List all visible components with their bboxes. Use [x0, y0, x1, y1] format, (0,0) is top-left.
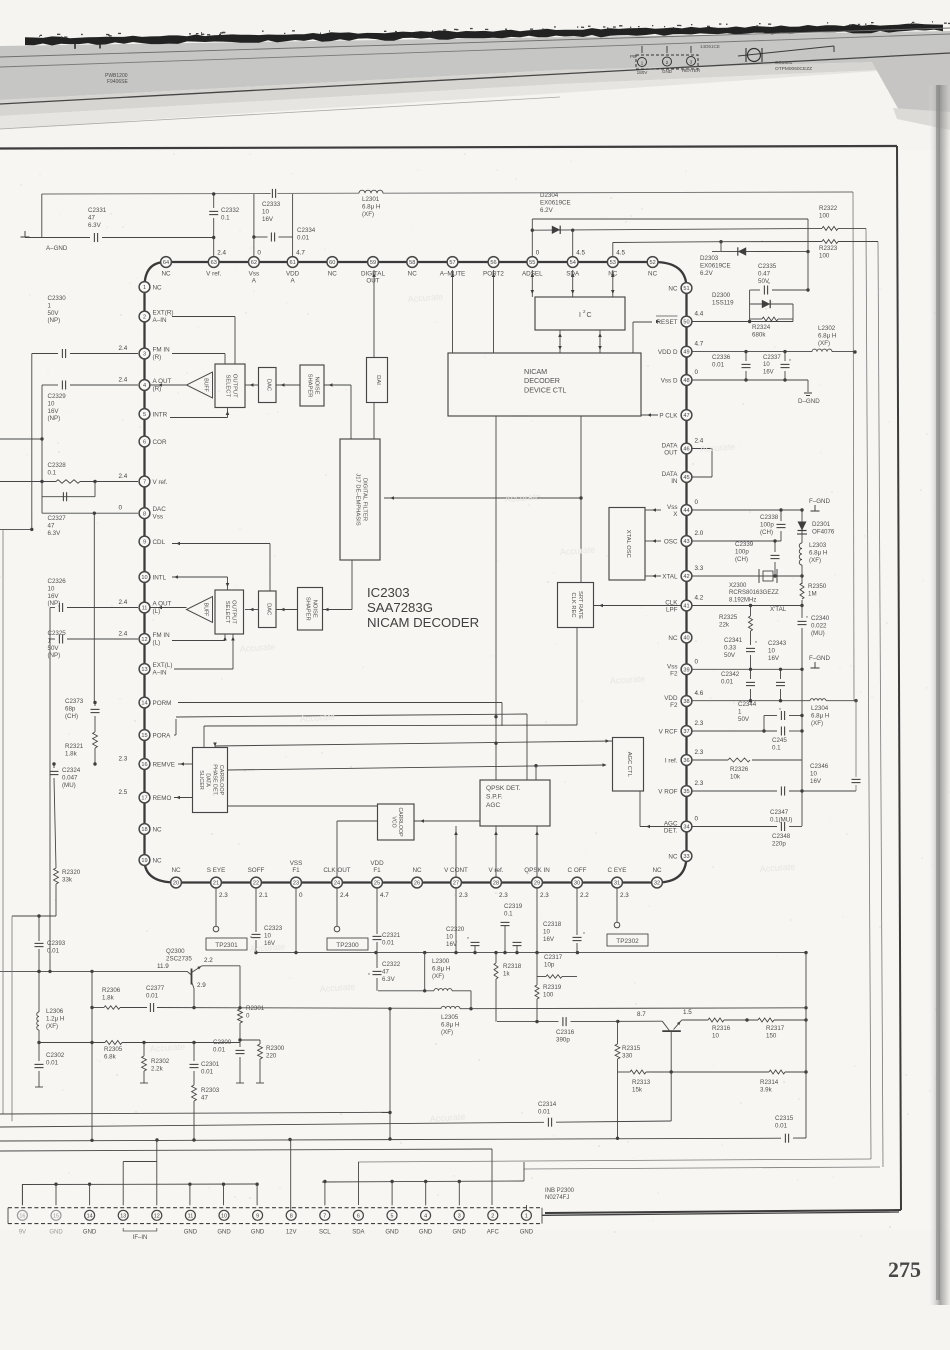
svg-text:3: 3 — [458, 1213, 461, 1219]
svg-text:C2347: C2347 — [770, 809, 789, 816]
svg-text:NC: NC — [668, 853, 678, 860]
svg-text:0.1: 0.1 — [504, 910, 513, 917]
svg-text:33k: 33k — [62, 876, 73, 883]
svg-text:*: * — [755, 641, 757, 647]
svg-text:RCRS80163GEZZ: RCRS80163GEZZ — [729, 590, 779, 596]
svg-text:SAA7283G: SAA7283G — [367, 600, 433, 615]
svg-text:C2317: C2317 — [544, 954, 563, 961]
svg-text:0: 0 — [299, 892, 303, 899]
svg-text:2.2k: 2.2k — [151, 1065, 164, 1072]
svg-text:11: 11 — [142, 606, 148, 612]
svg-text:3.3: 3.3 — [695, 565, 704, 572]
svg-text:180V: 180V — [637, 70, 649, 75]
svg-text:NC: NC — [153, 826, 163, 833]
svg-text:R2322: R2322 — [819, 205, 838, 212]
svg-text:R2301: R2301 — [246, 1005, 265, 1012]
svg-text:DET.: DET. — [664, 828, 678, 835]
svg-text:C2323: C2323 — [264, 925, 283, 932]
svg-text:(R): (R) — [153, 354, 162, 361]
svg-text:C2335: C2335 — [758, 263, 777, 270]
svg-text:C2326: C2326 — [48, 578, 67, 585]
svg-text:OUT: OUT — [664, 450, 677, 457]
svg-text:6.8k: 6.8k — [104, 1053, 117, 1060]
svg-text:8.192MHz: 8.192MHz — [729, 597, 756, 603]
svg-text:P CLK: P CLK — [659, 412, 678, 419]
svg-text:0: 0 — [695, 816, 699, 823]
svg-text:220: 220 — [266, 1052, 277, 1059]
svg-text:100p: 100p — [760, 521, 774, 528]
svg-text:4.7: 4.7 — [695, 341, 704, 348]
svg-text:16: 16 — [19, 1213, 25, 1219]
svg-text:44: 44 — [683, 508, 689, 514]
svg-text:43: 43 — [683, 539, 689, 545]
svg-text:0.33: 0.33 — [724, 644, 737, 651]
svg-text:SCL: SCL — [319, 1230, 331, 1236]
svg-text:64: 64 — [163, 260, 169, 266]
svg-text:10k: 10k — [730, 773, 741, 780]
svg-text:1: 1 — [143, 285, 146, 291]
svg-text:DEVICE CTL: DEVICE CTL — [524, 385, 566, 394]
svg-text:NICAM DECODER: NICAM DECODER — [367, 615, 479, 630]
svg-text:1.5: 1.5 — [683, 1009, 692, 1016]
svg-text:6.8μ H: 6.8μ H — [811, 712, 829, 719]
svg-text:OUT: OUT — [366, 278, 379, 285]
svg-text:2.3: 2.3 — [499, 892, 508, 899]
svg-text:(CH): (CH) — [760, 529, 773, 536]
svg-text:C2325: C2325 — [48, 630, 67, 637]
svg-text:(NP): (NP) — [48, 600, 61, 607]
svg-text:D2303: D2303 — [700, 255, 719, 262]
svg-text:F2: F2 — [670, 702, 678, 709]
svg-text:A–IN: A–IN — [153, 317, 167, 324]
svg-text:INTL: INTL — [153, 574, 167, 581]
svg-text:4.5: 4.5 — [616, 250, 625, 257]
svg-text:41: 41 — [683, 604, 689, 610]
svg-text:R2315: R2315 — [622, 1045, 641, 1052]
svg-text:50V: 50V — [724, 652, 736, 659]
svg-text:6.2V: 6.2V — [700, 270, 714, 277]
svg-text:0: 0 — [257, 250, 261, 257]
svg-text:47: 47 — [683, 413, 689, 419]
svg-text:6: 6 — [357, 1213, 360, 1219]
svg-text:FM IN: FM IN — [153, 347, 171, 354]
svg-text:XTAL: XTAL — [662, 573, 678, 580]
svg-text:*: * — [250, 936, 252, 942]
svg-text:R2350: R2350 — [808, 583, 827, 590]
svg-text:FM IN: FM IN — [153, 632, 171, 639]
svg-text:DIGITAL: DIGITAL — [361, 271, 386, 278]
svg-text:GND: GND — [662, 69, 673, 74]
svg-text:Vss: Vss — [667, 504, 678, 511]
svg-text:16V: 16V — [810, 778, 822, 785]
svg-text:2: 2 — [491, 1213, 494, 1219]
svg-text:15: 15 — [53, 1213, 59, 1219]
svg-text:R2313: R2313 — [632, 1079, 651, 1086]
svg-text:18: 18 — [141, 827, 147, 833]
svg-text:R2319: R2319 — [543, 984, 562, 991]
svg-text:OSC: OSC — [664, 538, 678, 545]
svg-text:2.3: 2.3 — [119, 756, 128, 763]
svg-text:GND: GND — [217, 1230, 231, 1236]
svg-text:QPSK DET.: QPSK DET. — [486, 785, 521, 792]
svg-text:C2315: C2315 — [775, 1115, 794, 1122]
svg-text:R2314: R2314 — [760, 1079, 779, 1086]
svg-text:REMO: REMO — [153, 795, 172, 802]
svg-text:A–IN: A–IN — [153, 669, 167, 676]
svg-text:2.4: 2.4 — [119, 377, 128, 384]
svg-text:NOISE: NOISE — [313, 376, 319, 394]
svg-text:R2317: R2317 — [766, 1025, 785, 1032]
svg-text:C2319: C2319 — [504, 903, 523, 910]
svg-text:VDD: VDD — [286, 271, 300, 278]
svg-text:14D61CE: 14D61CE — [700, 44, 720, 49]
svg-text:D2304: D2304 — [540, 192, 559, 199]
svg-text:Q2300: Q2300 — [166, 948, 185, 955]
svg-text:2.2: 2.2 — [580, 892, 589, 899]
svg-text:(NP): (NP) — [48, 415, 61, 422]
svg-text:45: 45 — [683, 475, 689, 481]
svg-text:L2301: L2301 — [362, 196, 380, 203]
svg-text:AGC CTL: AGC CTL — [626, 752, 632, 778]
svg-text:GND: GND — [520, 1230, 534, 1236]
svg-text:2: 2 — [143, 315, 146, 321]
svg-text:NC: NC — [161, 271, 171, 278]
svg-text:10: 10 — [763, 362, 770, 368]
svg-text:27: 27 — [453, 881, 459, 887]
svg-text:22: 22 — [253, 881, 259, 887]
svg-text:PORT2: PORT2 — [483, 271, 504, 278]
svg-text:OTPM0060CEZZ: OTPM0060CEZZ — [775, 66, 812, 72]
svg-text:13: 13 — [141, 667, 147, 673]
svg-text:0.01: 0.01 — [538, 1108, 551, 1115]
svg-text:D–GND: D–GND — [798, 398, 820, 405]
svg-text:12: 12 — [154, 1213, 160, 1219]
svg-text:12V: 12V — [286, 1230, 297, 1236]
svg-text:D2300: D2300 — [712, 292, 731, 299]
svg-text:R2318: R2318 — [503, 963, 522, 970]
svg-text:16V: 16V — [763, 369, 774, 375]
svg-text:19: 19 — [141, 858, 147, 864]
svg-text:VDD D: VDD D — [658, 349, 678, 356]
svg-text:0.01: 0.01 — [213, 1046, 226, 1053]
svg-text:8: 8 — [290, 1213, 293, 1219]
svg-text:C2332: C2332 — [221, 207, 240, 214]
svg-text:390p: 390p — [556, 1036, 570, 1043]
svg-text:TP2301: TP2301 — [215, 942, 238, 949]
svg-text:OUTPUT: OUTPUT — [231, 600, 237, 624]
svg-text:1.8k: 1.8k — [65, 750, 78, 757]
svg-text:F–GND: F–GND — [809, 655, 831, 662]
svg-text:C: C — [587, 312, 592, 319]
svg-text:0.01: 0.01 — [201, 1068, 214, 1075]
svg-text:GND: GND — [184, 1230, 198, 1236]
svg-text:(MU): (MU) — [811, 630, 825, 637]
svg-text:C2329: C2329 — [48, 393, 67, 400]
svg-text:33: 33 — [683, 854, 689, 860]
svg-text:4: 4 — [143, 383, 146, 389]
svg-text:DATA: DATA — [205, 773, 211, 787]
svg-text:1: 1 — [525, 1213, 528, 1219]
svg-text:S EYE: S EYE — [207, 867, 226, 874]
svg-text:2.4: 2.4 — [119, 473, 128, 480]
svg-text:9: 9 — [256, 1213, 259, 1219]
svg-text:220p: 220p — [772, 840, 786, 847]
svg-text:22k: 22k — [719, 621, 730, 628]
svg-text:(L): (L) — [153, 639, 161, 646]
svg-text:1SS119: 1SS119 — [712, 299, 734, 306]
svg-text:NOISE: NOISE — [311, 600, 317, 618]
svg-text:F1: F1 — [373, 867, 381, 874]
svg-text:46: 46 — [683, 447, 689, 453]
svg-text:68p: 68p — [65, 705, 76, 712]
svg-text:4.7: 4.7 — [380, 892, 389, 899]
svg-text:IF–IN: IF–IN — [133, 1235, 148, 1241]
svg-text:(MU): (MU) — [62, 782, 76, 789]
svg-text:40: 40 — [683, 636, 689, 642]
svg-text:I: I — [579, 312, 581, 319]
svg-text:NC: NC — [412, 867, 422, 874]
svg-text:DAC: DAC — [265, 379, 271, 391]
svg-text:PORA: PORA — [153, 732, 172, 739]
svg-text:10: 10 — [264, 932, 271, 939]
svg-text:14: 14 — [141, 701, 147, 707]
svg-text:7: 7 — [323, 1213, 326, 1219]
svg-text:63: 63 — [211, 260, 217, 266]
svg-text:12: 12 — [141, 637, 147, 643]
svg-text:NC: NC — [668, 635, 678, 642]
svg-text:C2348: C2348 — [772, 833, 791, 840]
svg-text:52: 52 — [649, 260, 655, 266]
svg-text:C2330: C2330 — [48, 295, 67, 302]
svg-text:0.01: 0.01 — [721, 678, 734, 685]
svg-text:SDA: SDA — [566, 271, 580, 278]
svg-text:F9406SE: F9406SE — [107, 79, 129, 85]
svg-text:30: 30 — [574, 881, 580, 887]
svg-text:6.3V: 6.3V — [88, 222, 102, 229]
svg-text:0.1: 0.1 — [48, 469, 57, 476]
svg-text:INTR: INTR — [153, 411, 168, 418]
svg-text:DATA: DATA — [662, 471, 679, 478]
svg-text:TP2300: TP2300 — [336, 942, 359, 949]
svg-text:R2320: R2320 — [62, 869, 81, 876]
svg-text:42: 42 — [683, 574, 689, 580]
svg-text:0.1: 0.1 — [772, 744, 781, 751]
svg-text:NC: NC — [171, 867, 181, 874]
svg-text:0.022: 0.022 — [811, 622, 827, 629]
svg-text:37: 37 — [683, 729, 689, 735]
svg-text:60: 60 — [329, 260, 335, 266]
svg-text:2.4: 2.4 — [695, 438, 704, 445]
svg-text:IN: IN — [671, 478, 678, 485]
svg-text:10: 10 — [48, 400, 55, 407]
svg-text:17: 17 — [141, 796, 147, 802]
svg-text:DATA: DATA — [662, 443, 679, 450]
svg-text:31: 31 — [614, 881, 620, 887]
svg-text:V ref.: V ref. — [153, 479, 168, 486]
svg-text:*: * — [789, 359, 791, 365]
svg-text:L2303: L2303 — [809, 542, 827, 549]
svg-text:50V: 50V — [758, 278, 770, 285]
svg-text:0.01: 0.01 — [775, 1122, 788, 1129]
svg-text:NC: NC — [608, 271, 618, 278]
svg-text:X'TAL: X'TAL — [770, 606, 787, 613]
svg-text:DAC: DAC — [153, 506, 167, 513]
svg-text:11: 11 — [188, 1213, 194, 1219]
svg-text:NC: NC — [408, 271, 418, 278]
svg-text:F2: F2 — [670, 671, 678, 678]
svg-text:C2338: C2338 — [760, 514, 779, 521]
svg-text:25: 25 — [374, 881, 380, 887]
svg-text:L2300: L2300 — [432, 958, 450, 965]
svg-text:11.9: 11.9 — [157, 963, 169, 970]
svg-text:R2302: R2302 — [151, 1058, 170, 1065]
svg-text:23: 23 — [293, 881, 299, 887]
svg-text:*: * — [806, 616, 808, 622]
svg-text:3: 3 — [143, 352, 146, 358]
svg-text:1: 1 — [48, 302, 52, 309]
svg-text:C EYE: C EYE — [608, 867, 627, 874]
svg-text:EXT(R): EXT(R) — [153, 310, 174, 317]
svg-text:2.3: 2.3 — [695, 780, 704, 787]
svg-text:4.7: 4.7 — [296, 250, 305, 257]
svg-text:CDL: CDL — [153, 539, 166, 546]
svg-text:1M: 1M — [808, 590, 817, 597]
svg-text:C2373: C2373 — [65, 698, 84, 705]
svg-text:C2318: C2318 — [543, 921, 562, 928]
svg-text:6.3V: 6.3V — [48, 530, 62, 537]
svg-text:0.1: 0.1 — [221, 214, 230, 221]
svg-text:2.3: 2.3 — [219, 892, 228, 899]
svg-text:SOFF: SOFF — [248, 867, 265, 874]
svg-text:10: 10 — [543, 928, 550, 935]
svg-text:15: 15 — [141, 733, 147, 739]
svg-text:50V: 50V — [48, 645, 60, 652]
svg-text:DECODER: DECODER — [524, 376, 560, 385]
svg-text:0: 0 — [536, 250, 540, 257]
svg-text:10: 10 — [810, 770, 817, 777]
svg-text:SC1601: SC1601 — [775, 60, 793, 66]
svg-text:DIGITAL FILTER: DIGITAL FILTER — [361, 478, 367, 521]
svg-text:54: 54 — [570, 260, 576, 266]
svg-text:N0274FJ: N0274FJ — [545, 1195, 569, 1201]
svg-text:16V: 16V — [262, 216, 274, 223]
svg-text:10: 10 — [712, 1032, 719, 1039]
svg-text:NC: NC — [328, 271, 338, 278]
svg-text:0.01: 0.01 — [297, 234, 310, 241]
svg-text:C2343: C2343 — [768, 640, 787, 647]
svg-text:2.4: 2.4 — [119, 631, 128, 638]
svg-text:51: 51 — [683, 286, 689, 292]
svg-text:C2339: C2339 — [735, 541, 754, 548]
svg-text:*: * — [583, 932, 585, 938]
svg-text:24: 24 — [334, 881, 340, 887]
svg-text:4.2: 4.2 — [695, 595, 704, 602]
svg-text:VCO: VCO — [390, 816, 396, 827]
svg-text:2.1: 2.1 — [259, 892, 268, 899]
svg-text:C2331: C2331 — [88, 207, 107, 214]
svg-text:47: 47 — [88, 214, 95, 221]
svg-text:16V: 16V — [48, 408, 60, 415]
svg-text:AGC: AGC — [486, 802, 501, 809]
svg-text:36: 36 — [683, 758, 689, 764]
svg-text:6.8μ H: 6.8μ H — [441, 1021, 459, 1028]
svg-text:D2301: D2301 — [812, 521, 831, 528]
svg-text:6.8μ H: 6.8μ H — [432, 965, 450, 972]
svg-text:C2314: C2314 — [538, 1101, 557, 1108]
svg-text:C2328: C2328 — [48, 462, 67, 469]
svg-text:Vss: Vss — [249, 271, 260, 278]
svg-text:49: 49 — [683, 350, 689, 356]
svg-text:C2321: C2321 — [382, 932, 401, 939]
svg-text:GND: GND — [419, 1230, 433, 1236]
svg-text:2.4: 2.4 — [217, 250, 226, 257]
svg-text:AFC: AFC — [487, 1230, 500, 1236]
svg-text:16V: 16V — [446, 941, 458, 948]
svg-text:34: 34 — [683, 825, 689, 831]
svg-text:SRT RATE: SRT RATE — [577, 591, 583, 619]
svg-text:F1: F1 — [292, 867, 300, 874]
svg-text:9V: 9V — [19, 1230, 26, 1236]
svg-text:(NP): (NP) — [48, 317, 61, 324]
svg-text:48: 48 — [683, 378, 689, 384]
svg-text:10: 10 — [141, 575, 147, 581]
svg-text:*: * — [779, 708, 781, 714]
svg-text:4.4: 4.4 — [695, 311, 704, 318]
svg-text:EX0619CE: EX0619CE — [540, 199, 571, 206]
svg-text:GND: GND — [385, 1230, 399, 1236]
svg-text:0: 0 — [695, 369, 699, 376]
svg-text:*: * — [467, 937, 469, 943]
svg-text:0.01: 0.01 — [146, 992, 159, 999]
svg-text:2.4: 2.4 — [119, 345, 128, 352]
svg-text:0: 0 — [695, 499, 699, 506]
svg-text:VDD: VDD — [664, 695, 678, 702]
svg-text:PHASE DET.: PHASE DET. — [211, 764, 217, 795]
svg-text:VDD: VDD — [370, 860, 384, 867]
svg-text:2.3: 2.3 — [695, 749, 704, 756]
svg-text:100: 100 — [819, 252, 830, 259]
svg-text:(CH): (CH) — [65, 713, 78, 720]
svg-text:35: 35 — [683, 789, 689, 795]
svg-text:58: 58 — [409, 260, 415, 266]
svg-text:100p: 100p — [735, 548, 749, 555]
svg-text:NC: NC — [652, 867, 662, 874]
svg-text:EX0619CE: EX0619CE — [700, 262, 731, 269]
svg-text:XTAL OSC: XTAL OSC — [625, 530, 631, 558]
svg-text:NC: NC — [153, 284, 163, 291]
svg-text:5: 5 — [143, 412, 146, 418]
svg-text:10: 10 — [446, 933, 453, 940]
svg-text:CLK OUT: CLK OUT — [323, 867, 350, 874]
svg-text:1.8k: 1.8k — [102, 994, 115, 1001]
svg-text:C2316: C2316 — [556, 1029, 575, 1036]
svg-text:C2393: C2393 — [47, 940, 66, 947]
svg-text:(XF): (XF) — [362, 211, 374, 218]
svg-text:32: 32 — [654, 881, 660, 887]
svg-text:(NP): (NP) — [48, 652, 61, 659]
svg-text:Vss D: Vss D — [661, 377, 678, 384]
svg-text:DAI: DAI — [375, 375, 381, 385]
svg-text:680k: 680k — [752, 331, 766, 338]
svg-text:10: 10 — [48, 585, 55, 592]
svg-text:100: 100 — [543, 991, 554, 998]
svg-text:R2306: R2306 — [102, 987, 121, 994]
svg-text:29: 29 — [534, 881, 540, 887]
svg-text:A–GND: A–GND — [46, 245, 68, 252]
svg-text:HEATER: HEATER — [682, 68, 701, 73]
svg-text:26: 26 — [414, 881, 420, 887]
svg-text:1: 1 — [738, 708, 742, 715]
